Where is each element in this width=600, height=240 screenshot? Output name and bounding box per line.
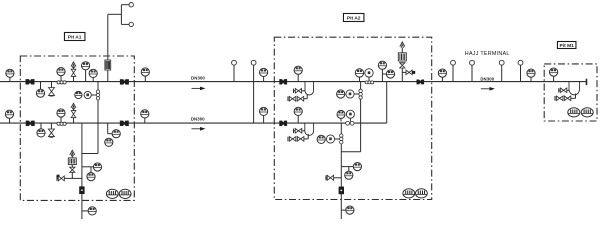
svg-text:HAJJ TERMINAL: HAJJ TERMINAL [465, 51, 510, 57]
svg-text:Pit M1: Pit M1 [559, 43, 574, 49]
svg-text:DN300: DN300 [191, 116, 205, 121]
svg-text:Pit A2: Pit A2 [347, 15, 361, 21]
svg-text:DN300: DN300 [191, 75, 205, 80]
svg-text:Pit A1: Pit A1 [68, 34, 82, 40]
svg-text:DN300: DN300 [480, 77, 494, 82]
